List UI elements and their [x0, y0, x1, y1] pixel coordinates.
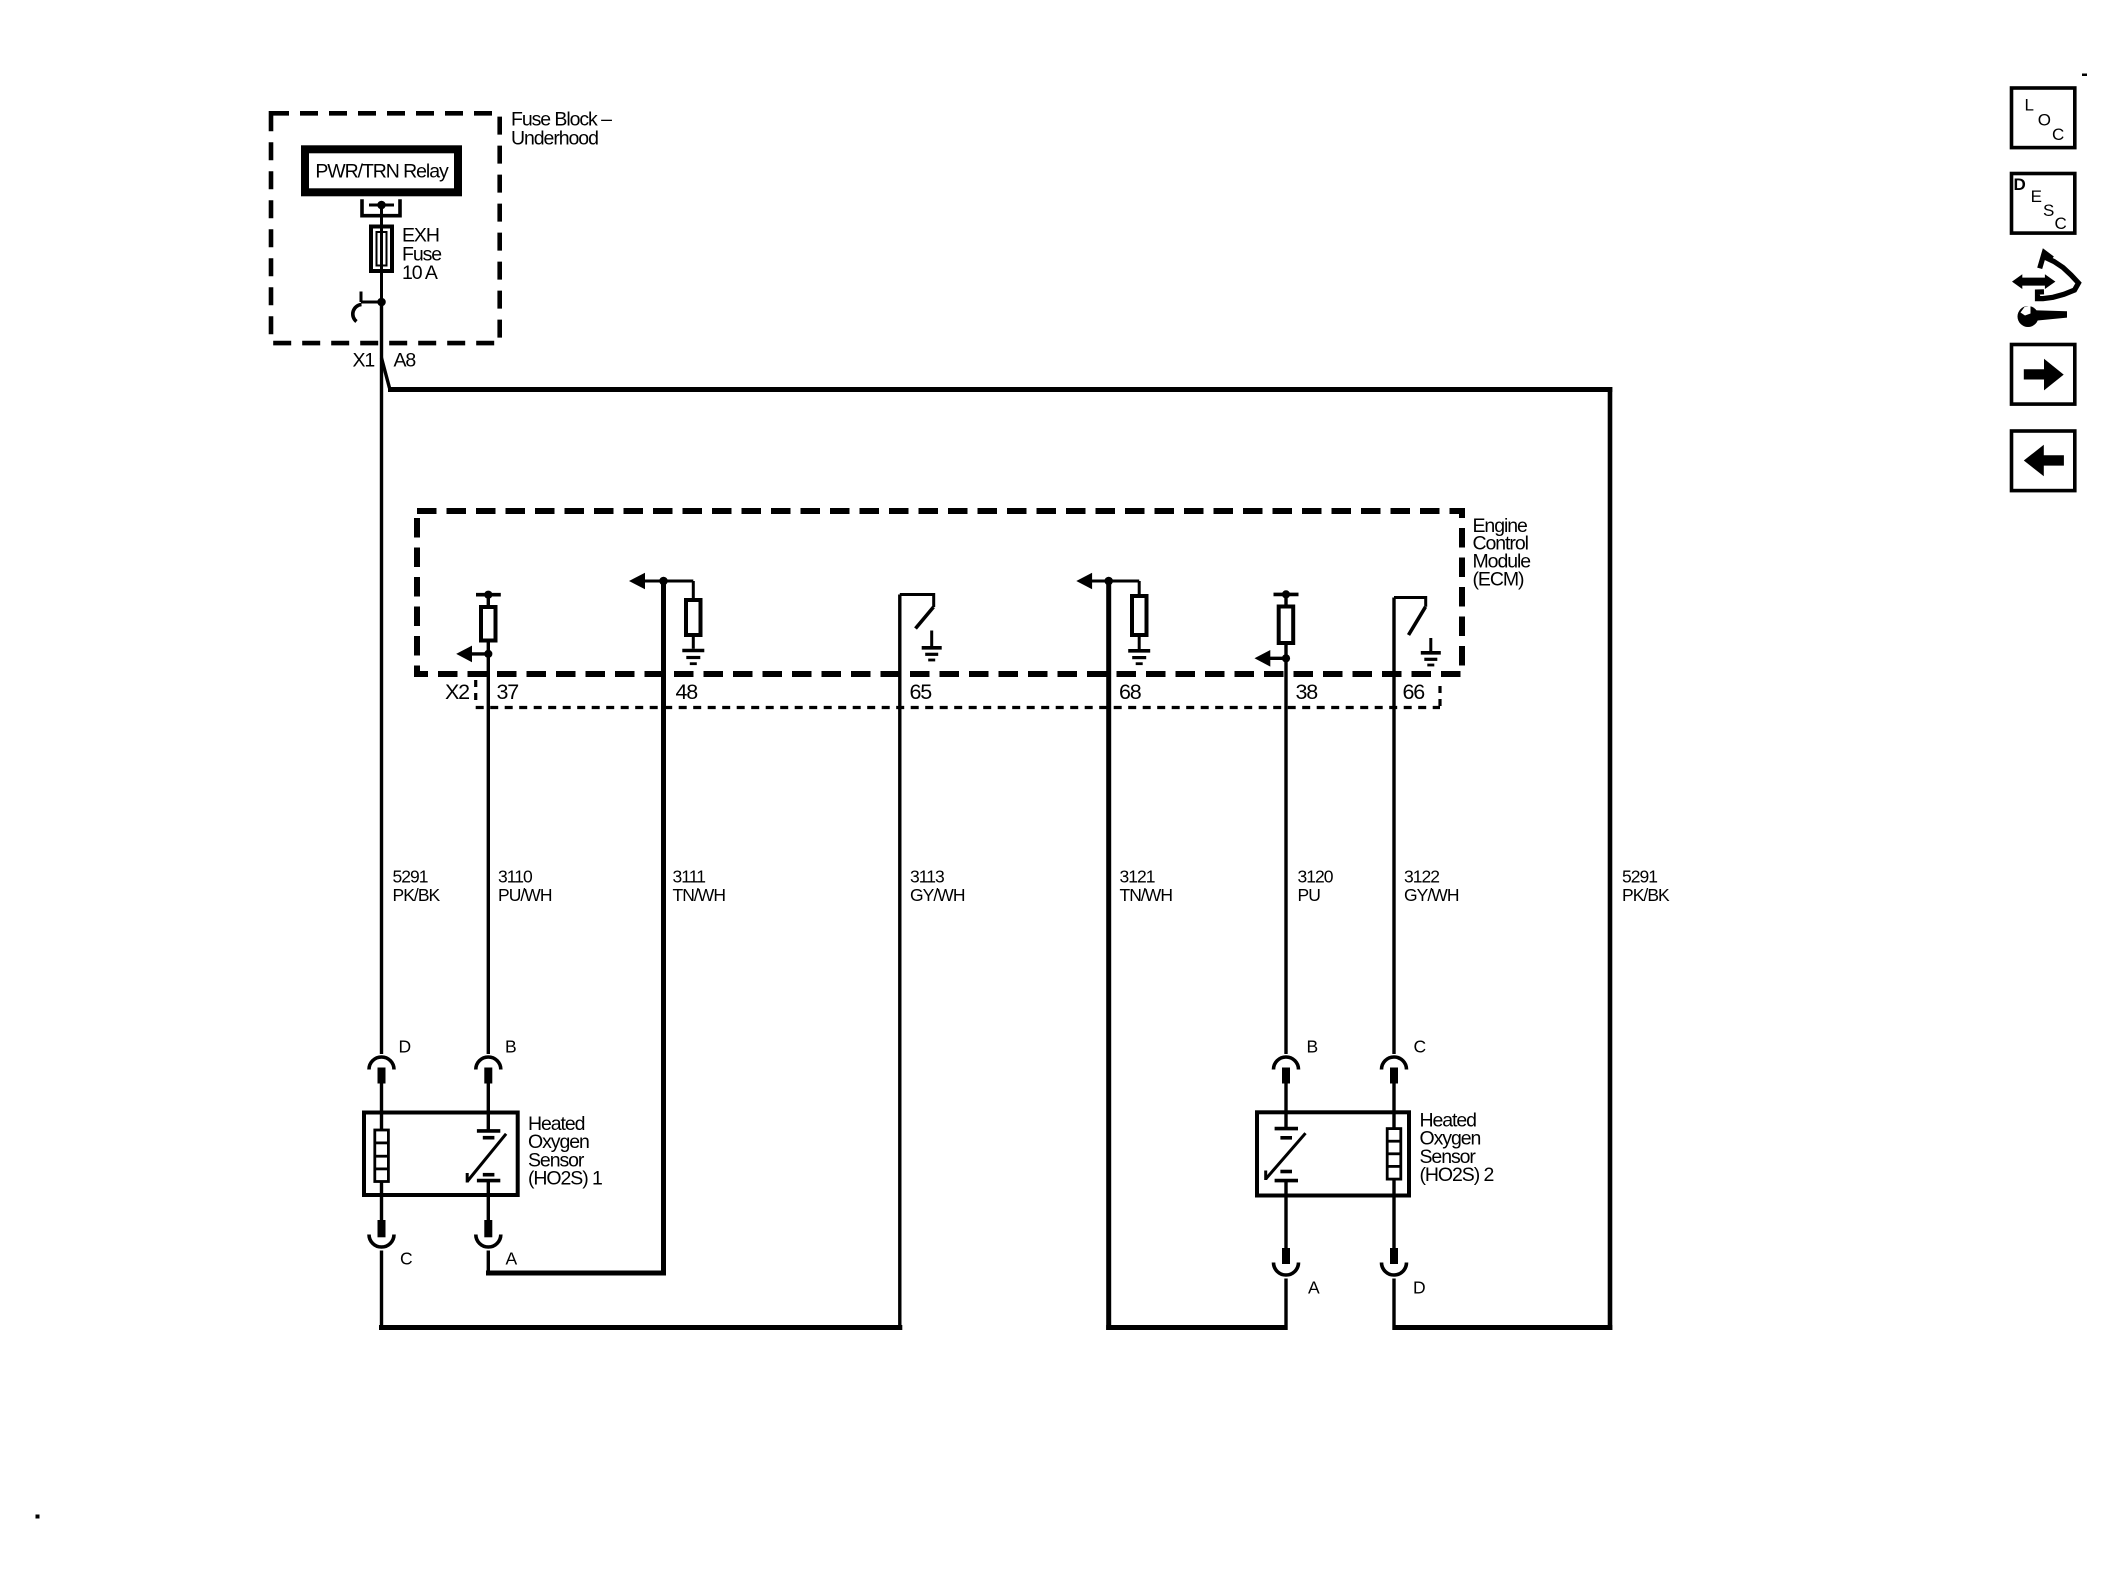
- stray mark top right: [2082, 74, 2087, 77]
- ECM pin 68 ground: [1128, 637, 1150, 664]
- ECM pin 65 heater low-side switch: [900, 595, 934, 629]
- wire 3110 PU/WH pin 37 to HO2S1 B: [487, 654, 490, 1054]
- wire 3111 bottom link to HO2S1 A: [486, 1271, 666, 1276]
- HO2S2 connector pin D: [1382, 1248, 1426, 1330]
- ECM connector X2 dotted outline: [476, 680, 1440, 708]
- HO2S1 connector pin D: [369, 1037, 411, 1084]
- ECM label: [1473, 515, 1531, 590]
- HO2S1 connector pin C: [369, 1220, 412, 1330]
- svg-text:E: E: [2031, 187, 2042, 206]
- svg-text:65: 65: [910, 680, 933, 704]
- HO2S2 heater element: [1387, 1084, 1401, 1249]
- wire 3120 PU pin 38 to HO2S2 B: [1284, 658, 1287, 1054]
- HO2S1 connector pin A: [476, 1220, 518, 1276]
- fuse EXH 10A: [371, 205, 441, 302]
- ECM connector X2 pin labels: [445, 680, 1425, 704]
- wire label 5291 PK/BK left: [393, 867, 441, 906]
- HO2S1 label: [528, 1113, 602, 1190]
- ECM pin 68 low-reference arrow: [1076, 573, 1139, 590]
- svg-text:GY/WH: GY/WH: [910, 885, 965, 905]
- svg-text:(ECM): (ECM): [1473, 568, 1525, 590]
- ECM pin 48 low-reference arrow: [629, 573, 693, 590]
- wire label 3121 TN/WH: [1120, 867, 1173, 906]
- ECM pin 48 ground: [682, 637, 704, 664]
- HO2S1 connector pin B: [476, 1037, 516, 1084]
- svg-text:PU/WH: PU/WH: [498, 885, 552, 905]
- wire 5291 branch kink to main run: [382, 358, 390, 388]
- diagnostic wrench icon: [2012, 253, 2079, 327]
- svg-text:TN/WH: TN/WH: [1120, 885, 1173, 905]
- wire label 3113 GY/WH: [910, 867, 965, 906]
- ECM pin 66 ground: [1421, 638, 1441, 665]
- wire label 3122 GY/WH: [1404, 867, 1459, 906]
- svg-text:C: C: [2052, 125, 2064, 144]
- svg-text:(HO2S) 1: (HO2S) 1: [528, 1168, 602, 1190]
- svg-text:3121: 3121: [1120, 867, 1155, 887]
- wire 5291 bottom link to HO2S2 pin D: [1394, 1325, 1612, 1330]
- forward arrow icon box: [2012, 345, 2075, 405]
- connector X1 pin A8: [353, 292, 416, 372]
- svg-text:3113: 3113: [910, 867, 944, 887]
- ECM pin 37 signal arrow: [456, 646, 492, 663]
- wire label 5291 PK/BK right: [1622, 867, 1670, 906]
- HO2S1 heater element: [375, 1084, 389, 1222]
- HO2S1 sensing cell: [467, 1084, 506, 1222]
- svg-text:L: L: [2025, 95, 2034, 114]
- svg-text:5291: 5291: [1622, 867, 1657, 887]
- relay PWR/TRN: [305, 149, 458, 192]
- svg-text:66: 66: [1403, 680, 1426, 704]
- svg-text:O: O: [2038, 110, 2051, 129]
- svg-text:C: C: [2055, 214, 2067, 233]
- svg-text:C: C: [400, 1249, 412, 1269]
- LOC icon box: [2012, 88, 2075, 148]
- HO2S1 box: [364, 1113, 518, 1196]
- wire label 3110 PU/WH: [498, 867, 552, 906]
- svg-text:C: C: [1414, 1037, 1426, 1057]
- HO2S2 label: [1420, 1109, 1494, 1186]
- back arrow icon box: [2012, 431, 2075, 491]
- ECM pin 65 ground: [922, 631, 942, 661]
- DESC icon box: [2012, 174, 2075, 234]
- fuse block label: [511, 109, 612, 150]
- svg-text:D: D: [1413, 1278, 1425, 1298]
- wire 5291 fuse output down to HO2S1 pin D: [380, 302, 383, 1054]
- svg-text:3110: 3110: [498, 867, 533, 887]
- HO2S2 box: [1257, 1112, 1409, 1195]
- svg-text:PU: PU: [1298, 885, 1321, 905]
- wire 5291 right side drop: [1608, 387, 1613, 1330]
- ECM pin 66 heater low-side switch: [1394, 598, 1426, 636]
- HO2S2 connector pin C: [1382, 1037, 1426, 1084]
- relay contact: [362, 199, 400, 215]
- svg-text:68: 68: [1119, 680, 1142, 704]
- wire 3121 TN/WH pin 68 to HO2S2 A: [1106, 579, 1111, 1331]
- svg-text:GY/WH: GY/WH: [1404, 885, 1459, 905]
- wire label 3120 PU: [1298, 867, 1334, 906]
- wire 5291 main horizontal run: [388, 387, 1612, 392]
- ECM pin 38 signal arrow: [1255, 650, 1291, 667]
- svg-text:48: 48: [676, 680, 699, 704]
- svg-text:37: 37: [497, 680, 519, 704]
- wire 3122 GY/WH pin 66 to HO2S2 C: [1392, 598, 1395, 1055]
- wire 3121 bottom link to HO2S2 A: [1106, 1325, 1286, 1330]
- stray dot bottom left: [36, 1515, 40, 1519]
- svg-text:Underhood: Underhood: [511, 127, 598, 149]
- svg-text:38: 38: [1296, 680, 1319, 704]
- HO2S2 connector pin A: [1274, 1248, 1321, 1330]
- svg-text:A: A: [1308, 1278, 1320, 1298]
- svg-text:A: A: [506, 1249, 518, 1269]
- ECM pin 37 pull-up resistor: [476, 591, 501, 654]
- svg-text:X2: X2: [445, 680, 469, 704]
- svg-text:PK/BK: PK/BK: [1622, 885, 1670, 905]
- svg-text:(HO2S) 2: (HO2S) 2: [1420, 1164, 1494, 1186]
- svg-text:10 A: 10 A: [402, 262, 438, 284]
- ECM pin 38 pull-up resistor: [1274, 590, 1299, 658]
- svg-text:3122: 3122: [1404, 867, 1439, 887]
- svg-text:B: B: [1307, 1037, 1318, 1057]
- svg-text:PWR/TRN Relay: PWR/TRN Relay: [315, 161, 449, 183]
- svg-text:5291: 5291: [393, 867, 428, 887]
- svg-text:S: S: [2043, 201, 2054, 220]
- HO2S2 connector pin B: [1274, 1037, 1318, 1084]
- fuse block - underhood dashed box: [271, 113, 500, 343]
- svg-text:X1: X1: [353, 349, 375, 371]
- svg-text:D: D: [399, 1037, 411, 1057]
- svg-text:3111: 3111: [673, 867, 706, 887]
- svg-text:A8: A8: [394, 349, 416, 371]
- wire 3111 TN/WH pin 48 to HO2S1 A: [661, 579, 666, 1276]
- svg-text:3120: 3120: [1298, 867, 1334, 887]
- svg-text:TN/WH: TN/WH: [673, 885, 726, 905]
- wire 3113 GY/WH pin 65 to HO2S1 C: [898, 595, 901, 1331]
- wire label 3111 TN/WH: [673, 867, 726, 906]
- svg-text:PK/BK: PK/BK: [393, 885, 441, 905]
- ECM pin 68 internal resistor: [1132, 581, 1147, 635]
- svg-text:D: D: [2014, 175, 2026, 194]
- wire 3113 bottom link to HO2S1 C: [379, 1325, 902, 1330]
- HO2S2 sensing cell: [1266, 1084, 1306, 1249]
- svg-text:B: B: [505, 1037, 516, 1057]
- ECM pin 48 internal resistor: [686, 581, 701, 635]
- ECM dashed box: [417, 511, 1462, 674]
